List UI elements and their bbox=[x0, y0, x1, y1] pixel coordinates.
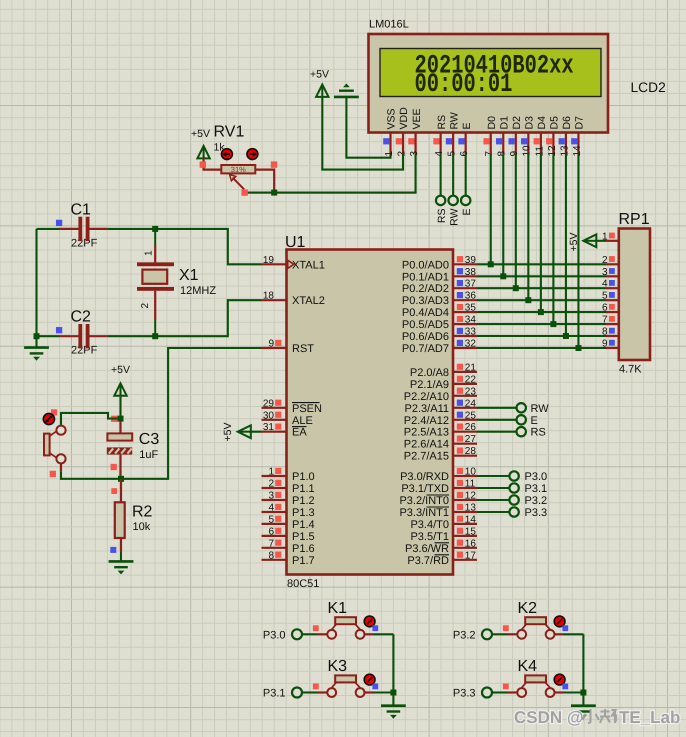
svg-text:9: 9 bbox=[268, 339, 274, 350]
svg-text:RW: RW bbox=[448, 208, 460, 225]
svg-text:P3.3: P3.3 bbox=[525, 507, 548, 519]
svg-text:33: 33 bbox=[465, 327, 477, 338]
svg-text:P2.1/A9: P2.1/A9 bbox=[410, 379, 449, 391]
svg-text:6: 6 bbox=[268, 526, 274, 537]
svg-text:7: 7 bbox=[268, 538, 274, 549]
svg-text:10: 10 bbox=[522, 145, 533, 157]
svg-text:28: 28 bbox=[465, 446, 477, 457]
svg-text:17: 17 bbox=[465, 550, 477, 561]
svg-text:2: 2 bbox=[396, 151, 407, 157]
svg-text:13: 13 bbox=[465, 503, 477, 514]
svg-text:XTAL2: XTAL2 bbox=[292, 295, 325, 307]
svg-text:P0.0/AD0: P0.0/AD0 bbox=[402, 259, 449, 271]
svg-text:31%: 31% bbox=[231, 165, 246, 174]
svg-text:37: 37 bbox=[465, 279, 477, 290]
svg-text:K4: K4 bbox=[518, 658, 538, 675]
svg-text:14: 14 bbox=[572, 145, 583, 157]
svg-text:RW: RW bbox=[448, 112, 460, 129]
svg-text:4: 4 bbox=[434, 151, 445, 157]
svg-text:2: 2 bbox=[268, 479, 274, 490]
svg-text:P2.5/A13: P2.5/A13 bbox=[404, 427, 449, 439]
svg-text:CSDN @: CSDN @ bbox=[514, 708, 583, 727]
svg-text:+5V: +5V bbox=[191, 128, 210, 140]
svg-text:19: 19 bbox=[263, 255, 275, 266]
svg-text:ALE: ALE bbox=[292, 415, 313, 427]
svg-text:RW: RW bbox=[531, 403, 550, 415]
svg-text:32: 32 bbox=[465, 339, 477, 350]
svg-text:RS: RS bbox=[531, 427, 546, 439]
svg-text:6: 6 bbox=[602, 303, 608, 314]
svg-text:16: 16 bbox=[465, 538, 477, 549]
svg-text:P0.6/AD6: P0.6/AD6 bbox=[402, 331, 449, 343]
svg-text:7: 7 bbox=[602, 315, 608, 326]
svg-text:K1: K1 bbox=[328, 600, 348, 617]
svg-text:8: 8 bbox=[268, 550, 274, 561]
svg-text:P1.5: P1.5 bbox=[292, 531, 315, 543]
svg-text:5: 5 bbox=[602, 291, 608, 302]
svg-text:13: 13 bbox=[559, 145, 570, 157]
svg-text:11: 11 bbox=[534, 146, 545, 157]
svg-text:LCD2: LCD2 bbox=[631, 80, 666, 95]
svg-text:P1.6: P1.6 bbox=[292, 543, 315, 555]
svg-text:34: 34 bbox=[465, 315, 477, 326]
svg-text:+5V: +5V bbox=[111, 364, 130, 376]
svg-text:6: 6 bbox=[459, 151, 470, 157]
svg-text:25: 25 bbox=[465, 410, 477, 421]
svg-text:5: 5 bbox=[268, 514, 274, 525]
svg-text:RST: RST bbox=[292, 343, 314, 355]
svg-text:35: 35 bbox=[465, 303, 477, 314]
svg-text:4: 4 bbox=[268, 503, 274, 514]
svg-text:3: 3 bbox=[409, 151, 420, 157]
svg-text:8: 8 bbox=[602, 327, 608, 338]
svg-text:9: 9 bbox=[509, 151, 520, 157]
svg-text:P1.7: P1.7 bbox=[292, 555, 315, 567]
svg-text:C3: C3 bbox=[139, 431, 160, 448]
svg-text:P2.6/A14: P2.6/A14 bbox=[404, 439, 449, 451]
svg-text:P3.1/TXD: P3.1/TXD bbox=[401, 483, 449, 495]
svg-text:D1: D1 bbox=[498, 116, 510, 130]
svg-text:P2.0/A8: P2.0/A8 bbox=[410, 367, 449, 379]
svg-text:C1: C1 bbox=[71, 201, 92, 218]
svg-text:24: 24 bbox=[465, 398, 477, 409]
svg-text:1: 1 bbox=[384, 151, 395, 157]
svg-text:P0.1/AD1: P0.1/AD1 bbox=[402, 271, 449, 283]
svg-text:1uF: 1uF bbox=[139, 449, 158, 461]
svg-text:4: 4 bbox=[602, 279, 608, 290]
svg-text:P2.2/A10: P2.2/A10 bbox=[404, 391, 449, 403]
svg-text:RV1: RV1 bbox=[214, 124, 245, 141]
svg-text:P3.1: P3.1 bbox=[525, 483, 548, 495]
svg-text:D5: D5 bbox=[549, 116, 561, 130]
svg-text:P3.3: P3.3 bbox=[453, 688, 476, 700]
svg-text:P2.4/A12: P2.4/A12 bbox=[404, 415, 449, 427]
svg-text:P3.0: P3.0 bbox=[525, 471, 548, 483]
svg-text:P3.5/T1: P3.5/T1 bbox=[410, 531, 449, 543]
svg-text:P3.2: P3.2 bbox=[453, 629, 476, 641]
svg-text:2: 2 bbox=[140, 303, 151, 309]
svg-text:2: 2 bbox=[602, 255, 608, 266]
svg-text:80C51: 80C51 bbox=[287, 578, 319, 590]
svg-text:RS: RS bbox=[436, 209, 448, 224]
svg-text:12: 12 bbox=[547, 145, 558, 157]
svg-text:LM016L: LM016L bbox=[369, 19, 409, 31]
svg-text:TE_Lab: TE_Lab bbox=[619, 708, 680, 727]
svg-text:P2.3/A11: P2.3/A11 bbox=[405, 403, 449, 415]
svg-text:10k: 10k bbox=[133, 521, 151, 533]
svg-text:+5V: +5V bbox=[310, 69, 329, 81]
svg-text:10: 10 bbox=[465, 467, 477, 478]
svg-text:P0.3/AD3: P0.3/AD3 bbox=[402, 295, 449, 307]
svg-text:P1.1: P1.1 bbox=[292, 483, 315, 495]
svg-text:27: 27 bbox=[465, 434, 477, 445]
svg-text:XTAL1: XTAL1 bbox=[292, 259, 325, 271]
svg-text:VEE: VEE bbox=[411, 108, 423, 129]
svg-text:23: 23 bbox=[465, 386, 477, 397]
svg-text:E: E bbox=[461, 122, 473, 129]
svg-text:C2: C2 bbox=[71, 309, 92, 326]
svg-text:12MHZ: 12MHZ bbox=[180, 285, 216, 297]
svg-text:22PF: 22PF bbox=[71, 345, 98, 357]
svg-text:21: 21 bbox=[465, 362, 477, 373]
svg-text:E: E bbox=[531, 415, 538, 427]
svg-text:P3.4/T0: P3.4/T0 bbox=[410, 519, 449, 531]
svg-text:D3: D3 bbox=[524, 116, 536, 130]
svg-text:11: 11 bbox=[465, 479, 476, 490]
svg-text:P1.4: P1.4 bbox=[292, 519, 315, 531]
svg-text:RP1: RP1 bbox=[619, 211, 650, 228]
svg-text:P0.2/AD2: P0.2/AD2 bbox=[402, 283, 449, 295]
svg-text:9: 9 bbox=[602, 339, 608, 350]
svg-text:P1.0: P1.0 bbox=[292, 471, 315, 483]
svg-text:P0.5/AD5: P0.5/AD5 bbox=[402, 319, 449, 331]
svg-text:P3.3/INT1: P3.3/INT1 bbox=[399, 507, 449, 519]
svg-text:P3.1: P3.1 bbox=[263, 688, 286, 700]
svg-text:PSEN: PSEN bbox=[292, 403, 322, 415]
svg-text:1: 1 bbox=[268, 467, 274, 478]
svg-text:26: 26 bbox=[465, 422, 477, 433]
svg-text:4.7K: 4.7K bbox=[619, 364, 642, 376]
svg-text:30: 30 bbox=[263, 410, 275, 421]
svg-text:D4: D4 bbox=[536, 116, 548, 130]
svg-text:22PF: 22PF bbox=[71, 237, 98, 249]
svg-text:X1: X1 bbox=[179, 267, 199, 284]
svg-text:39: 39 bbox=[465, 255, 477, 266]
svg-text:K2: K2 bbox=[518, 600, 538, 617]
svg-text:P3.0: P3.0 bbox=[263, 629, 286, 641]
svg-text:P3.2: P3.2 bbox=[525, 495, 548, 507]
svg-text:7: 7 bbox=[484, 151, 495, 157]
svg-text:D2: D2 bbox=[511, 116, 523, 130]
svg-text:+5V: +5V bbox=[222, 423, 234, 442]
svg-text:P0.4/AD4: P0.4/AD4 bbox=[402, 307, 449, 319]
svg-text:R2: R2 bbox=[132, 504, 153, 521]
svg-text:36: 36 bbox=[465, 291, 477, 302]
svg-text:E: E bbox=[461, 209, 473, 216]
svg-text:29: 29 bbox=[263, 398, 275, 409]
svg-text:P2.7/A15: P2.7/A15 bbox=[404, 451, 449, 463]
svg-text:3: 3 bbox=[602, 267, 608, 278]
svg-text:EA: EA bbox=[292, 427, 307, 439]
svg-text:D6: D6 bbox=[561, 116, 573, 130]
svg-text:31: 31 bbox=[263, 422, 275, 433]
svg-text:22: 22 bbox=[465, 374, 477, 385]
svg-text:1: 1 bbox=[144, 250, 155, 256]
svg-text:00:00:01: 00:00:01 bbox=[415, 70, 513, 100]
svg-text:P3.2/INT0: P3.2/INT0 bbox=[399, 495, 449, 507]
svg-text:D0: D0 bbox=[486, 116, 498, 130]
svg-text:15: 15 bbox=[465, 526, 477, 537]
svg-text:P1.2: P1.2 bbox=[292, 495, 315, 507]
svg-text:RS: RS bbox=[436, 115, 448, 130]
svg-text:14: 14 bbox=[465, 514, 477, 525]
svg-text:8: 8 bbox=[497, 151, 508, 157]
svg-text:P1.3: P1.3 bbox=[292, 507, 315, 519]
svg-text:5: 5 bbox=[447, 151, 458, 157]
svg-text:D7: D7 bbox=[574, 116, 586, 130]
svg-text:38: 38 bbox=[465, 267, 477, 278]
svg-text:P3.0/RXD: P3.0/RXD bbox=[400, 471, 449, 483]
svg-text:VDD: VDD bbox=[398, 107, 410, 130]
svg-text:3: 3 bbox=[268, 491, 274, 502]
svg-text:P3.6/WR: P3.6/WR bbox=[405, 543, 449, 555]
svg-text:P0.7/AD7: P0.7/AD7 bbox=[402, 343, 449, 355]
svg-text:VSS: VSS bbox=[386, 108, 398, 129]
svg-text:+5V: +5V bbox=[568, 233, 580, 252]
svg-text:18: 18 bbox=[263, 291, 275, 302]
svg-text:12: 12 bbox=[465, 491, 477, 502]
svg-text:P3.7/RD: P3.7/RD bbox=[407, 555, 449, 567]
svg-text:K3: K3 bbox=[328, 658, 348, 675]
